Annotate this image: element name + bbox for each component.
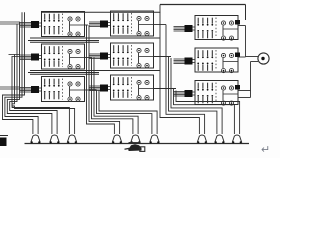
bell LS6 [150, 136, 152, 143]
module U4 (column 2 row 1) [89, 11, 154, 36]
wire link col1 row1 top across col2 up to bus [42, 11, 161, 13]
bell LS8 [215, 136, 217, 143]
wire stubs image-left-edge to U3 [0, 86, 20, 88]
module U7 (column 3 row 1) [174, 16, 241, 41]
module U2 (column 1 row 2) [20, 44, 85, 69]
bell LS3 [67, 136, 69, 143]
module U3 (column 1 row 3) [20, 77, 85, 102]
wire bundle group 2 to bells [87, 25, 115, 134]
connector fragment at left image edge [0, 138, 7, 147]
module U1 (column 1 row 1) [20, 12, 85, 37]
wire bundle group 3 to bells [160, 5, 199, 135]
module U8 (column 3 row 2) [174, 48, 241, 73]
module U5 (column 2 row 2) [89, 43, 154, 68]
bell LS7 [197, 136, 199, 143]
module U6 (column 2 row 3) [89, 75, 154, 100]
bell LS2 [50, 136, 52, 143]
svg-text:↵: ↵ [261, 144, 270, 156]
wire stubs image-left-edge to U1 [0, 21, 20, 23]
wire top bus of column 3 [160, 4, 246, 6]
wire stubs to U2 from bundle [9, 54, 21, 56]
ground clamp symbol at bottom center [129, 142, 141, 144]
wire bundle group 1 to bells [3, 12, 33, 134]
wire bus between row1 and row2 of columns 1-2 [28, 40, 99, 42]
wire col2 row exits to bundle 3 [154, 24, 167, 26]
bell LS9 [232, 136, 234, 143]
bell LS1 [31, 136, 33, 143]
bell LS4 [112, 136, 114, 143]
module U9 (column 3 row 3) [174, 81, 241, 106]
wire bus between rows of columns 2-3 [30, 37, 160, 39]
wire bottom baseline [25, 143, 250, 145]
wire col3 right-edge links [238, 25, 246, 27]
wire col1 row exits to bundle 2 [85, 24, 89, 26]
meter M1 (circle indicator) [246, 56, 259, 58]
wire bus between row2 and row3 of columns 1-2 [28, 72, 99, 74]
bell LS5 [131, 136, 133, 143]
